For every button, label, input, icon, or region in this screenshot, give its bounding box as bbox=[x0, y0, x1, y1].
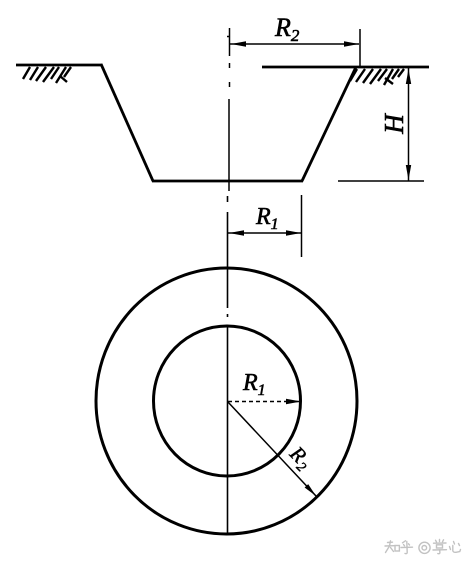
radius arrow R2 (plan diagonal) bbox=[228, 402, 317, 497]
inner circle (R1) bbox=[154, 326, 301, 476]
ground hatching right bbox=[350, 69, 404, 85]
dimension R2: line with arrows bbox=[230, 41, 359, 46]
dimension H: line with arrows bbox=[406, 68, 411, 181]
知 right 口 bbox=[395, 546, 399, 552]
slope line left bbox=[101, 64, 153, 181]
dimension R1 (between views): line with arrows bbox=[228, 230, 302, 235]
outer circle (R2) bbox=[96, 268, 357, 534]
pit bottom line bbox=[152, 180, 303, 183]
掌 top bbox=[439, 540, 441, 542]
乎 bbox=[403, 541, 406, 543]
ground line right bbox=[262, 66, 429, 69]
extension line for R2 bbox=[359, 29, 361, 67]
ground line left bbox=[16, 64, 102, 67]
extension line for H (pit bottom extended) bbox=[338, 180, 424, 182]
radius arrow R1 (plan) bbox=[228, 399, 301, 404]
@ bbox=[419, 542, 430, 553]
slope line right bbox=[302, 67, 356, 181]
center line (section view) bbox=[227, 28, 230, 191]
心 bbox=[450, 547, 451, 550]
extension line for R1 bbox=[301, 195, 303, 257]
知 left 矢 bbox=[388, 541, 393, 543]
watermark "知乎 @掌心" drawn as vector strokes bbox=[385, 540, 461, 554]
ground hatching left bbox=[23, 67, 71, 83]
svg-text:H: H bbox=[379, 113, 409, 135]
center line (plan view) bbox=[227, 196, 229, 534]
